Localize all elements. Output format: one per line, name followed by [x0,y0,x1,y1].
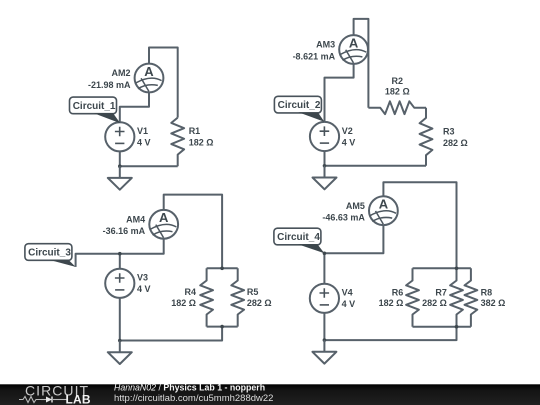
resistor R6 [406,268,419,326]
footer url text [114,393,273,404]
label AM5 reading [322,201,365,223]
svg-text:282 Ω: 282 Ω [443,138,468,148]
svg-text:282 Ω: 282 Ω [422,298,447,308]
wire V3 top lead [119,254,121,269]
node dot circuit 3 top [118,252,122,256]
svg-text:R7: R7 [435,287,447,297]
resistor R3 [420,108,433,166]
resistor R1 [171,118,184,167]
svg-text:182 Ω: 182 Ω [379,298,404,308]
svg-text:-21.98 mA: -21.98 mA [88,80,131,90]
resistor R8 [465,268,478,326]
svg-text:4 V: 4 V [137,284,151,294]
wire AM4 bottom to node row [76,239,164,267]
voltage source V1 [105,122,134,151]
node dot circuit 3 ground [118,339,122,343]
svg-text:A: A [379,197,389,212]
svg-text:R4: R4 [184,287,196,297]
svg-text:382 Ω: 382 Ω [481,298,506,308]
wire V3 bottom to ground node [119,298,121,341]
label R8 value [481,287,506,307]
node dot circuit 4 ground [323,338,327,342]
CircuitLab logo squiggle wire resistor diode [19,397,67,403]
node dot circuit 4 parallel bottom [455,325,459,329]
label R4 value [171,287,196,308]
svg-text:R6: R6 [392,287,404,297]
parallel top bar circuit 3 [207,267,238,269]
node dot circuit 3 parallel bottom [220,325,224,329]
label V1 value [137,126,151,148]
svg-text:AM5: AM5 [346,201,365,211]
svg-text:-46.63 mA: -46.63 mA [322,213,365,223]
svg-text:A: A [144,64,154,79]
label R7 value [422,287,447,307]
svg-text:R5: R5 [247,287,259,297]
svg-text:282 Ω: 282 Ω [247,298,272,308]
svg-text:Circuit_4: Circuit_4 [277,232,320,243]
svg-text:LAB: LAB [66,392,91,405]
label V4 value [342,288,356,310]
svg-text:Circuit_2: Circuit_2 [278,100,321,111]
parallel bottom bar circuit 4 [413,326,471,328]
svg-text:AM3: AM3 [316,40,335,50]
voltage source V3 [105,269,134,298]
ammeter AM2 [135,64,164,93]
svg-text:V1: V1 [137,126,148,136]
ammeter AM5 [369,196,398,225]
wire loop AM2 top to R1 top [149,48,178,118]
ground circuit 2 [313,166,337,190]
wire V1 bottom to ground node [119,151,121,166]
svg-text:AM2: AM2 [111,68,130,78]
svg-text:R8: R8 [481,287,493,297]
svg-text:4 V: 4 V [342,299,356,309]
label V2 value [342,126,356,148]
CircuitLab logo text LAB [66,392,91,405]
node dot circuit 4 parallel top [455,267,459,271]
label AM2 reading [88,68,131,90]
wire V4 top lead [323,253,325,284]
svg-text:-36.16 mA: -36.16 mA [103,226,146,236]
wire bottom: V1 node to R1 bottom [120,165,178,167]
CircuitLab logo text CIRCUIT [25,383,89,399]
flag Circuit_4 [274,228,325,253]
parallel top bar circuit 4 [413,267,471,269]
ammeter AM4 [149,210,178,239]
label AM4 reading [103,215,146,237]
ammeter AM3 [339,35,368,64]
resistor R4 [200,268,213,326]
wire AM2 bottom to V1 top [120,92,149,122]
svg-text:-8.621 mA: -8.621 mA [293,51,336,61]
svg-text:Circuit_1: Circuit_1 [73,101,116,112]
voltage source V2 [310,122,339,151]
wire loop AM3 top to R2 left [354,19,369,108]
svg-text:V2: V2 [342,126,353,136]
node junction dot circuit 2 [323,164,327,168]
svg-text:V4: V4 [342,288,353,298]
label R2 value [385,76,410,96]
svg-text:V3: V3 [137,273,148,283]
node dot circuit 3 parallel top [220,267,224,271]
resistor R2 [368,101,426,114]
label V3 value [137,273,151,295]
resistor R7 [450,268,463,326]
svg-text:4 V: 4 V [342,137,356,147]
svg-text:AM4: AM4 [126,215,145,225]
svg-text:182 Ω: 182 Ω [385,86,410,96]
flag Circuit_3 [25,244,76,267]
label AM3 reading [293,40,336,62]
ground circuit 1 [108,166,132,190]
wire V4 bottom to ground node [323,313,325,341]
label R6 value [379,287,404,307]
svg-text:Circuit_3: Circuit_3 [28,247,71,258]
node dot circuit 4 top [323,252,327,256]
wire bottom: ground node to parallel bottom [324,327,456,340]
wire AM5 bottom to node row [324,225,383,253]
footer title text [114,383,265,393]
voltage source V4 [310,284,339,313]
wire V2 bottom to ground node [324,151,326,166]
svg-text:R1: R1 [189,126,201,136]
svg-text:R2: R2 [392,76,404,86]
parallel bottom bar circuit 3 [207,326,238,328]
flag Circuit_1 [70,97,121,123]
wire loop AM5 top to parallel top [383,182,456,268]
svg-text:R3: R3 [443,126,455,136]
svg-text:182 Ω: 182 Ω [171,298,196,308]
svg-text:A: A [349,35,359,50]
ground circuit 3 [108,341,132,365]
flag Circuit_2 [274,96,324,122]
svg-text:A: A [159,210,169,225]
label R1 value [189,126,214,148]
wire bottom: V2 node to R3 bottom [325,165,427,167]
wire AM3 bottom to V2 top [325,64,354,123]
svg-text:4 V: 4 V [137,138,151,148]
wire bottom: ground node to parallel bottom [120,327,222,341]
wire loop AM4 top to parallel top [164,195,222,269]
footer bar [0,384,540,405]
svg-text:HannaN02 / Physics Lab 1 - nop: HannaN02 / Physics Lab 1 - nopperh [114,383,265,393]
label R3 value [443,126,468,148]
label R5 value [247,287,272,308]
node junction dot circuit 1 [118,164,122,168]
svg-text:http://circuitlab.com/cu5mmh28: http://circuitlab.com/cu5mmh288dw22 [114,393,273,404]
resistor R5 [231,268,244,326]
ground circuit 4 [312,340,336,364]
svg-text:182 Ω: 182 Ω [189,138,214,148]
